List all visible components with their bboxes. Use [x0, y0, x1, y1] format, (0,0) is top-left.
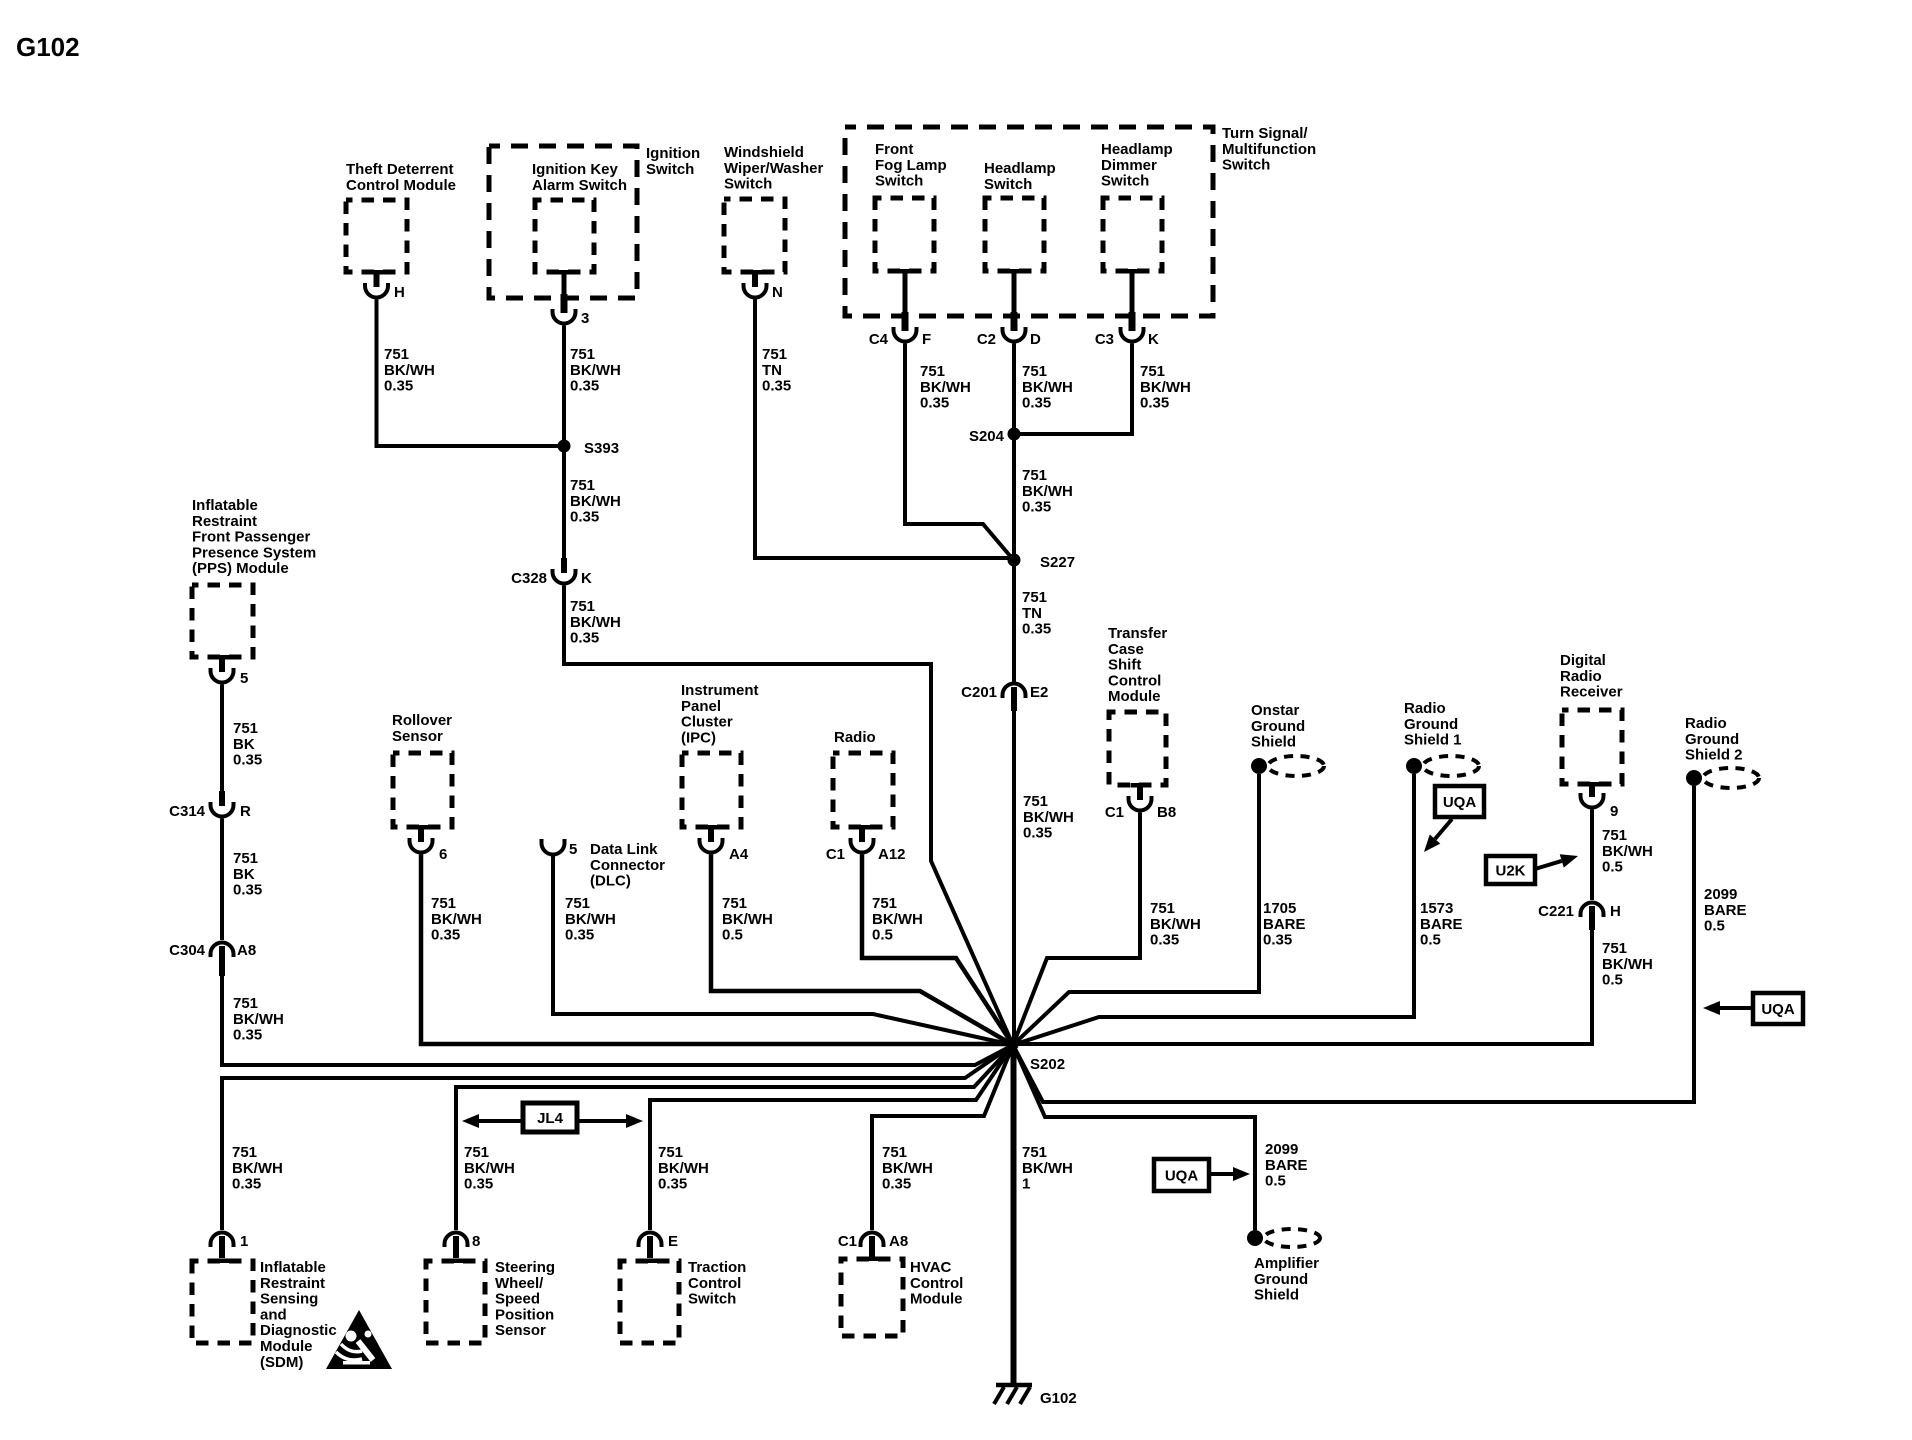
- svg-text:E: E: [668, 1233, 678, 1250]
- svg-text:C314: C314: [169, 803, 206, 820]
- svg-text:UQA: UQA: [1761, 1001, 1795, 1018]
- svg-text:9: 9: [1610, 803, 1618, 820]
- svg-text:R: R: [240, 803, 251, 820]
- svg-text:JL4: JL4: [537, 1110, 564, 1127]
- svg-text:A8: A8: [889, 1233, 908, 1250]
- svg-text:H: H: [394, 284, 405, 301]
- svg-text:C1: C1: [826, 846, 845, 863]
- svg-text:K: K: [581, 570, 592, 587]
- svg-text:H: H: [1610, 903, 1621, 920]
- svg-text:G102: G102: [16, 32, 80, 62]
- svg-text:C1: C1: [838, 1233, 857, 1250]
- svg-text:3: 3: [581, 310, 589, 327]
- svg-text:UQA: UQA: [1443, 794, 1477, 811]
- svg-text:F: F: [922, 331, 931, 348]
- svg-text:C221: C221: [1538, 903, 1574, 920]
- svg-text:6: 6: [439, 846, 447, 863]
- svg-text:C304: C304: [169, 942, 206, 959]
- svg-text:K: K: [1148, 331, 1159, 348]
- svg-text:C328: C328: [511, 570, 547, 587]
- svg-text:5: 5: [569, 841, 577, 858]
- svg-text:E2: E2: [1030, 684, 1048, 701]
- svg-text:C201: C201: [961, 684, 997, 701]
- svg-text:N: N: [772, 284, 783, 301]
- svg-text:Theft DeterrentControl Module: Theft DeterrentControl Module: [346, 161, 456, 194]
- svg-text:C2: C2: [977, 331, 996, 348]
- svg-text:S204: S204: [969, 428, 1005, 445]
- svg-text:C3: C3: [1095, 331, 1114, 348]
- svg-text:G102: G102: [1040, 1390, 1077, 1407]
- svg-text:UQA: UQA: [1165, 1168, 1199, 1185]
- svg-text:Ignition KeyAlarm Switch: Ignition KeyAlarm Switch: [532, 161, 627, 194]
- svg-text:S393: S393: [584, 440, 619, 457]
- svg-text:A12: A12: [878, 846, 906, 863]
- svg-text:S227: S227: [1040, 554, 1075, 571]
- svg-text:U2K: U2K: [1495, 863, 1525, 880]
- svg-text:1: 1: [240, 1233, 248, 1250]
- svg-text:B8: B8: [1157, 804, 1176, 821]
- svg-text:A8: A8: [237, 942, 256, 959]
- svg-text:S202: S202: [1030, 1056, 1065, 1073]
- svg-text:D: D: [1030, 331, 1041, 348]
- svg-text:Radio: Radio: [834, 729, 876, 746]
- svg-text:C1: C1: [1105, 804, 1124, 821]
- svg-text:C4: C4: [869, 331, 889, 348]
- svg-text:8: 8: [472, 1233, 480, 1250]
- svg-text:IgnitionSwitch: IgnitionSwitch: [646, 145, 700, 178]
- svg-text:5: 5: [240, 670, 248, 687]
- svg-text:A4: A4: [729, 846, 749, 863]
